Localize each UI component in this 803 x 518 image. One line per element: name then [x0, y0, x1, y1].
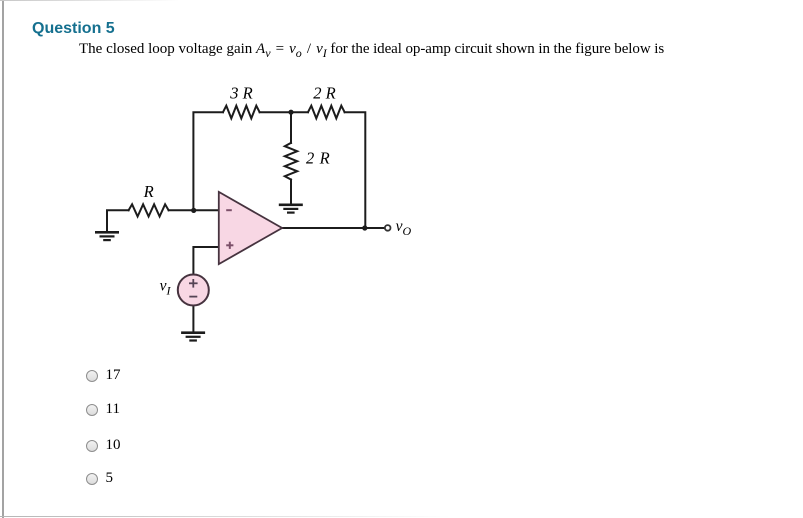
node B: inverting input junction: [191, 208, 196, 213]
question text: [79, 41, 664, 61]
wire: R to inverting input: [169, 209, 219, 211]
svg-text:vI: vI: [160, 278, 172, 298]
op-amp U1: [219, 192, 282, 264]
source VI: [178, 275, 209, 306]
resistor R: [129, 204, 169, 216]
node A: feedback junction: [288, 110, 293, 115]
svg-text:3 R: 3 R: [229, 84, 252, 103]
wire: 2R to top-right corner down to output node: [345, 112, 366, 228]
resistor 2R horizontal: [308, 106, 345, 119]
wire: 3R to 2R with junction: [260, 111, 308, 113]
question title: [32, 20, 115, 38]
radio option 10: [86, 440, 98, 452]
bottom frame hairline: [0, 516, 450, 517]
ground (left input): [95, 231, 119, 241]
top frame hairline: [0, 0, 180, 1]
left frame border: [2, 0, 4, 518]
svg-text:2 R: 2 R: [306, 149, 330, 168]
node C: output junction: [362, 225, 367, 230]
resistor 3R: [223, 106, 260, 119]
wire: left ground stem: [107, 210, 129, 231]
svg-text:vO: vO: [396, 218, 412, 238]
wire: op-amp output to terminal: [282, 227, 385, 229]
wire: 2R vertical to ground: [290, 180, 292, 204]
output terminal: [385, 225, 391, 231]
wire: source to ground: [192, 306, 194, 331]
resistor 2R vertical: [285, 143, 297, 180]
wire: noninverting input from source: [193, 247, 218, 274]
svg-text:R: R: [143, 182, 154, 201]
wire: inverting node to top-left corner: [193, 112, 223, 210]
wire: stem from top junction down to 2R vertical: [290, 112, 292, 143]
radio option 11: [86, 404, 98, 416]
svg-text:2 R: 2 R: [313, 83, 335, 102]
ground (under source): [181, 331, 205, 341]
ground (under 2R vertical): [279, 204, 303, 214]
radio option 5: [86, 473, 98, 485]
radio option 17: [86, 370, 98, 382]
